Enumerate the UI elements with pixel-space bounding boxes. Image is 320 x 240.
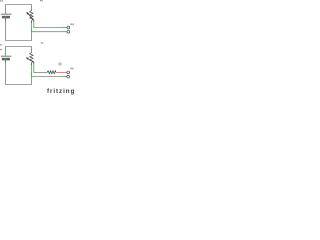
- svg-text:fritzing: fritzing: [47, 88, 75, 95]
